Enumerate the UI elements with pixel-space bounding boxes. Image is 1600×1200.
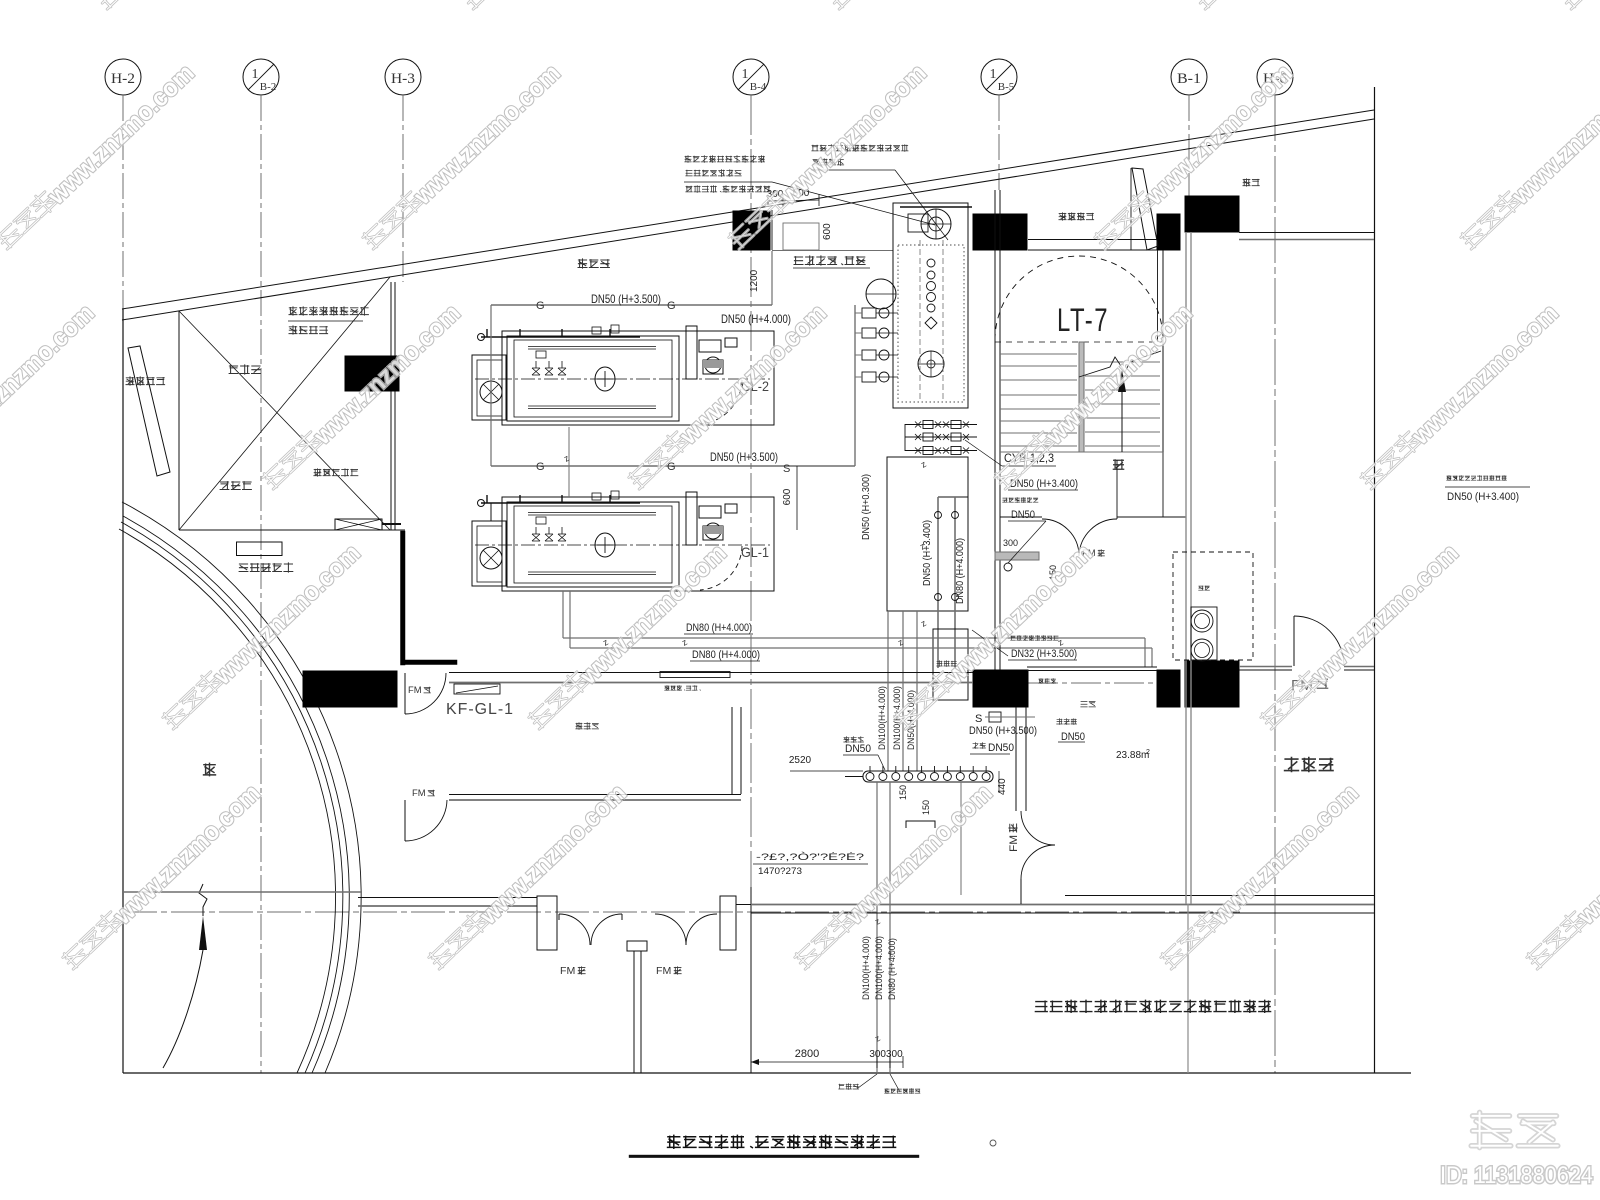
svg-text:DN50 (H+0.300): DN50 (H+0.300) [861,474,872,540]
svg-text:FM: FM [412,788,426,798]
svg-text:B-4: B-4 [750,81,767,93]
svg-text:H-2: H-2 [111,71,135,87]
svg-text:B-1: B-1 [1177,71,1201,87]
svg-text:FM: FM [656,966,671,977]
svg-text:S: S [783,463,790,475]
svg-text:DN50: DN50 [1061,731,1085,743]
svg-text:DN32 (H+3.500): DN32 (H+3.500) [1011,648,1077,660]
svg-text:FM: FM [560,966,575,977]
svg-text:G: G [536,461,545,473]
svg-text:2: 2 [1146,749,1150,756]
svg-text:S: S [975,713,982,725]
svg-text:300300: 300300 [869,1049,903,1060]
svg-text:DN80 (H+4.000): DN80 (H+4.000) [955,538,966,604]
svg-text:1470?273: 1470?273 [758,866,802,876]
svg-text:150: 150 [921,800,931,815]
svg-text:B-5: B-5 [998,81,1015,93]
svg-text:G: G [536,300,545,312]
svg-text:600: 600 [782,488,793,505]
svg-text:G: G [667,300,676,312]
svg-text:DN50 (H+3.500): DN50 (H+3.500) [591,292,661,306]
svg-text:DN50 (H+3.500): DN50 (H+3.500) [710,450,778,464]
svg-text:DN50: DN50 [1011,509,1035,521]
svg-text:1200: 1200 [749,269,760,292]
svg-text:1: 1 [742,67,749,82]
svg-text:DN50 (H+3.500): DN50 (H+3.500) [969,725,1037,737]
svg-text:300: 300 [1003,538,1018,548]
svg-text:KF-GL-1: KF-GL-1 [446,701,514,718]
svg-text:-?£?,?Ò?'?Ė?Ė?: -?£?,?Ò?'?Ė?Ė? [756,852,864,862]
svg-text:DN50: DN50 [988,742,1014,754]
svg-text:DN50 (H+3.400): DN50 (H+3.400) [1010,478,1078,490]
svg-text:1: 1 [990,67,997,82]
svg-text:DN80 (H+4.000): DN80 (H+4.000) [692,649,760,661]
svg-text:1: 1 [252,67,259,82]
svg-text:DN50 (H+3.400): DN50 (H+3.400) [1447,491,1519,503]
svg-text:DN100(H+4.000): DN100(H+4.000) [874,936,885,1000]
svg-text:23.88m: 23.88m [1116,750,1149,761]
svg-text:LT-7: LT-7 [1057,302,1109,338]
svg-text:B-2: B-2 [260,81,277,93]
svg-text:ID: 1131880624: ID: 1131880624 [1440,1162,1593,1189]
svg-text:DN50 (H+3.400): DN50 (H+3.400) [922,520,933,586]
svg-text:DN50 (H+4.000): DN50 (H+4.000) [721,312,791,326]
svg-text:FM: FM [408,685,422,695]
svg-text:DN100(H+4.000): DN100(H+4.000) [861,936,872,1000]
svg-text:2520: 2520 [789,755,812,766]
svg-text:H-3: H-3 [391,71,415,87]
svg-text:FM: FM [1008,835,1020,852]
svg-text:150: 150 [898,785,908,800]
svg-text:GL-1: GL-1 [741,544,769,560]
svg-text:DN80 (H+4.000): DN80 (H+4.000) [887,938,898,1000]
svg-text:600: 600 [822,223,833,240]
svg-text:DN50: DN50 [845,743,871,755]
svg-text:2800: 2800 [795,1048,819,1060]
svg-text:DN100(H+4.000): DN100(H+4.000) [877,686,888,750]
svg-text:DN80 (H+4.000): DN80 (H+4.000) [686,622,752,634]
